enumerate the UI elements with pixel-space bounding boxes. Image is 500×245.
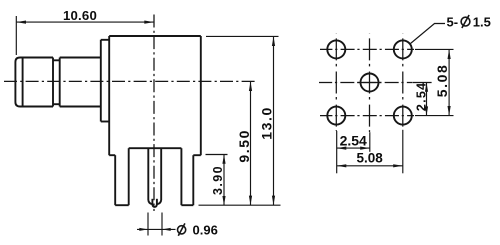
arrowhead 3.90 top: [222, 155, 225, 164]
dim 0.96 dimension line: [137, 228, 176, 230]
dim 5.08 right dimension line: [448, 49, 450, 115]
groove left edge: [52, 58, 54, 107]
solid cross through center hole: [358, 82, 382, 84]
svg-text:2.54: 2.54: [340, 133, 367, 149]
dim 10.60 extension line left: [15, 16, 17, 55]
center pin left shoulder: [148, 200, 152, 204]
plug face inner edge line: [22, 58, 24, 106]
leader line of 5-phi1.5: [411, 24, 446, 44]
dim 10.60 dimension line: [16, 21, 154, 23]
svg-text:1.5: 1.5: [473, 14, 491, 29]
vertical centerline of pin axis: [153, 15, 155, 212]
right leg bottom: [181, 204, 193, 206]
arrowhead 2.54 right bottom: [425, 106, 428, 115]
extension line top row right: [415, 48, 454, 50]
body bottom left ledge: [109, 154, 115, 156]
center pin right shoulder: [157, 200, 161, 204]
pin tip inner line right: [156, 199, 158, 205]
column centerline right: [402, 33, 404, 130]
dim 2.54 bottom dimension line: [337, 147, 370, 149]
svg-text:5-: 5-: [447, 14, 459, 29]
arrowhead 2.54 bottom left: [337, 147, 347, 150]
arrowhead 5.08 right top: [448, 49, 451, 59]
body top edge: [109, 35, 201, 37]
barrel second section top: [60, 57, 101, 59]
arrowhead 9.50 top: [249, 81, 252, 91]
pin tip inner line left: [151, 199, 153, 205]
groove right edge: [59, 58, 61, 107]
svg-text:2.54: 2.54: [414, 82, 428, 112]
dim 3.90 extension line: [206, 154, 228, 156]
extension line middle row right: [412, 82, 431, 84]
svg-text:5.08: 5.08: [356, 151, 383, 166]
arrowhead 10.60 right: [144, 21, 154, 24]
hole center: [361, 74, 379, 92]
row centerline middle: [319, 82, 412, 84]
connector plug barrel outline (left mating end): [15, 58, 53, 107]
arrowhead 0.96 left (points right): [139, 228, 148, 231]
right leg inner edge: [180, 148, 182, 205]
arrowhead 5.08 bottom left: [337, 164, 347, 167]
row centerline top: [320, 48, 414, 50]
svg-text:9.50: 9.50: [236, 129, 252, 163]
washer flange top: [101, 39, 109, 41]
body bottom right ledge: [193, 154, 201, 156]
bottom extension line at leg bottom: [199, 204, 281, 206]
left leg inner edge: [128, 148, 130, 205]
center pin left edge: [147, 148, 149, 200]
dim 3.90 dimension line: [223, 155, 225, 206]
arrowhead 10.60 left: [16, 21, 26, 24]
svg-text:13.0: 13.0: [258, 106, 274, 140]
bottom extension line left column: [336, 131, 338, 173]
arrowhead 2.54 bottom right: [360, 147, 370, 150]
groove recessed bottom: [53, 103, 60, 105]
body left face: [108, 36, 110, 155]
arrowhead 9.50 bottom: [249, 196, 252, 206]
dim 0.96 extension line right: [161, 213, 163, 236]
arrowhead 2.54 right top: [425, 83, 428, 92]
hole top-left: [327, 40, 345, 58]
center pin right edge: [160, 148, 162, 200]
horizontal centerline of plug axis: [4, 80, 255, 82]
hole top-right: [394, 40, 412, 58]
bottom extension line middle column: [369, 132, 371, 152]
groove recessed top: [53, 59, 60, 61]
column centerline middle: [369, 33, 371, 132]
dim 9.50 dimension line: [250, 81, 252, 205]
column centerline left: [335, 33, 337, 131]
left leg bottom: [115, 204, 129, 206]
hole bottom-left: [327, 107, 345, 125]
washer flange bottom: [101, 121, 109, 123]
svg-text:3.90: 3.90: [211, 165, 225, 195]
pin tip nub: [152, 204, 157, 207]
right leg outer edge: [192, 155, 194, 205]
svg-text:0.96: 0.96: [193, 222, 218, 237]
arrowhead 13.0 bottom: [272, 196, 275, 206]
dim 2.54 right dimension line: [426, 83, 428, 116]
svg-text:5.08: 5.08: [434, 64, 450, 98]
dim 0.96 extension line left: [147, 213, 149, 236]
arrowhead 5.08 right bottom: [448, 106, 451, 116]
hole bottom-right: [394, 107, 412, 125]
washer flange front face: [100, 40, 102, 122]
arrowhead 0.96 right (points left): [162, 228, 171, 231]
dim 5.08 bottom dimension line: [337, 165, 403, 167]
arrowhead 13.0 top: [272, 36, 275, 46]
body recessed bottom: [129, 147, 182, 149]
dim 13.0 dimension line: [273, 36, 275, 205]
left leg outer edge: [114, 155, 116, 205]
extension line bottom row right: [415, 115, 454, 117]
dim 13.0 top extension line: [206, 35, 279, 37]
row centerline bottom: [320, 115, 414, 117]
phi symbol of 0.96: [178, 223, 186, 235]
arrowhead 3.90 bottom: [222, 196, 225, 205]
svg-text:10.60: 10.60: [63, 8, 97, 23]
arrowhead 5.08 bottom right: [393, 164, 403, 167]
body right face: [200, 36, 202, 155]
barrel second section bottom: [60, 106, 101, 108]
bottom extension line right column: [402, 130, 404, 174]
